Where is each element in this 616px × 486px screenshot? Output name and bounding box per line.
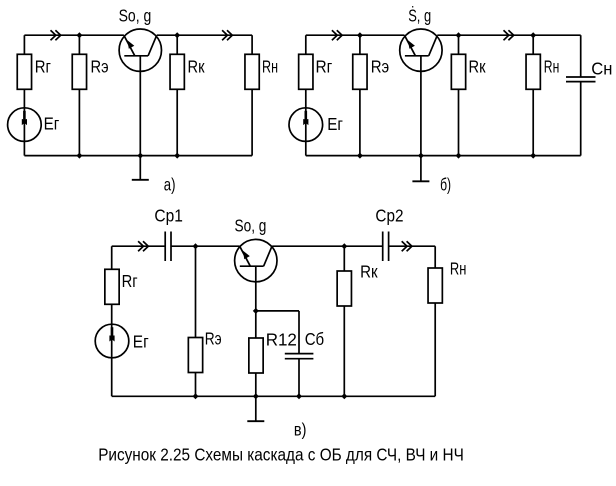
svg-text:Сб: Сб bbox=[305, 329, 325, 349]
svg-text:в): в) bbox=[294, 420, 307, 440]
svg-text:Ег: Ег bbox=[133, 332, 149, 352]
svg-text:Ṡ, g: Ṡ, g bbox=[408, 5, 431, 26]
svg-text:Rэ: Rэ bbox=[91, 57, 109, 77]
svg-text:б): б) bbox=[440, 175, 451, 195]
svg-text:Ср2: Ср2 bbox=[375, 206, 403, 226]
svg-text:а): а) bbox=[164, 175, 176, 195]
svg-text:R12: R12 bbox=[266, 330, 297, 350]
svg-text:Ср1: Ср1 bbox=[154, 206, 183, 226]
svg-text:Rг: Rг bbox=[122, 271, 138, 291]
svg-text:Rэ: Rэ bbox=[371, 57, 390, 77]
svg-text:Rк: Rк bbox=[188, 57, 205, 77]
svg-text:So, g: So, g bbox=[119, 6, 152, 26]
svg-text:Rк: Rк bbox=[360, 262, 378, 282]
svg-text:Сн: Сн bbox=[591, 59, 612, 79]
svg-text:Rг: Rг bbox=[316, 57, 333, 77]
svg-text:Ег: Ег bbox=[327, 114, 343, 134]
svg-text:Рисунок 2.25 Схемы каскада с О: Рисунок 2.25 Схемы каскада с ОБ для СЧ, … bbox=[98, 444, 464, 464]
svg-text:So, g: So, g bbox=[235, 215, 267, 235]
svg-text:Rн: Rн bbox=[544, 57, 560, 77]
svg-text:Rн: Rн bbox=[262, 57, 278, 77]
svg-text:Rг: Rг bbox=[35, 57, 51, 77]
svg-text:Ег: Ег bbox=[44, 114, 60, 134]
svg-text:Rн: Rн bbox=[450, 259, 467, 279]
svg-text:Rэ: Rэ bbox=[205, 329, 222, 349]
svg-text:Rк: Rк bbox=[469, 57, 486, 77]
